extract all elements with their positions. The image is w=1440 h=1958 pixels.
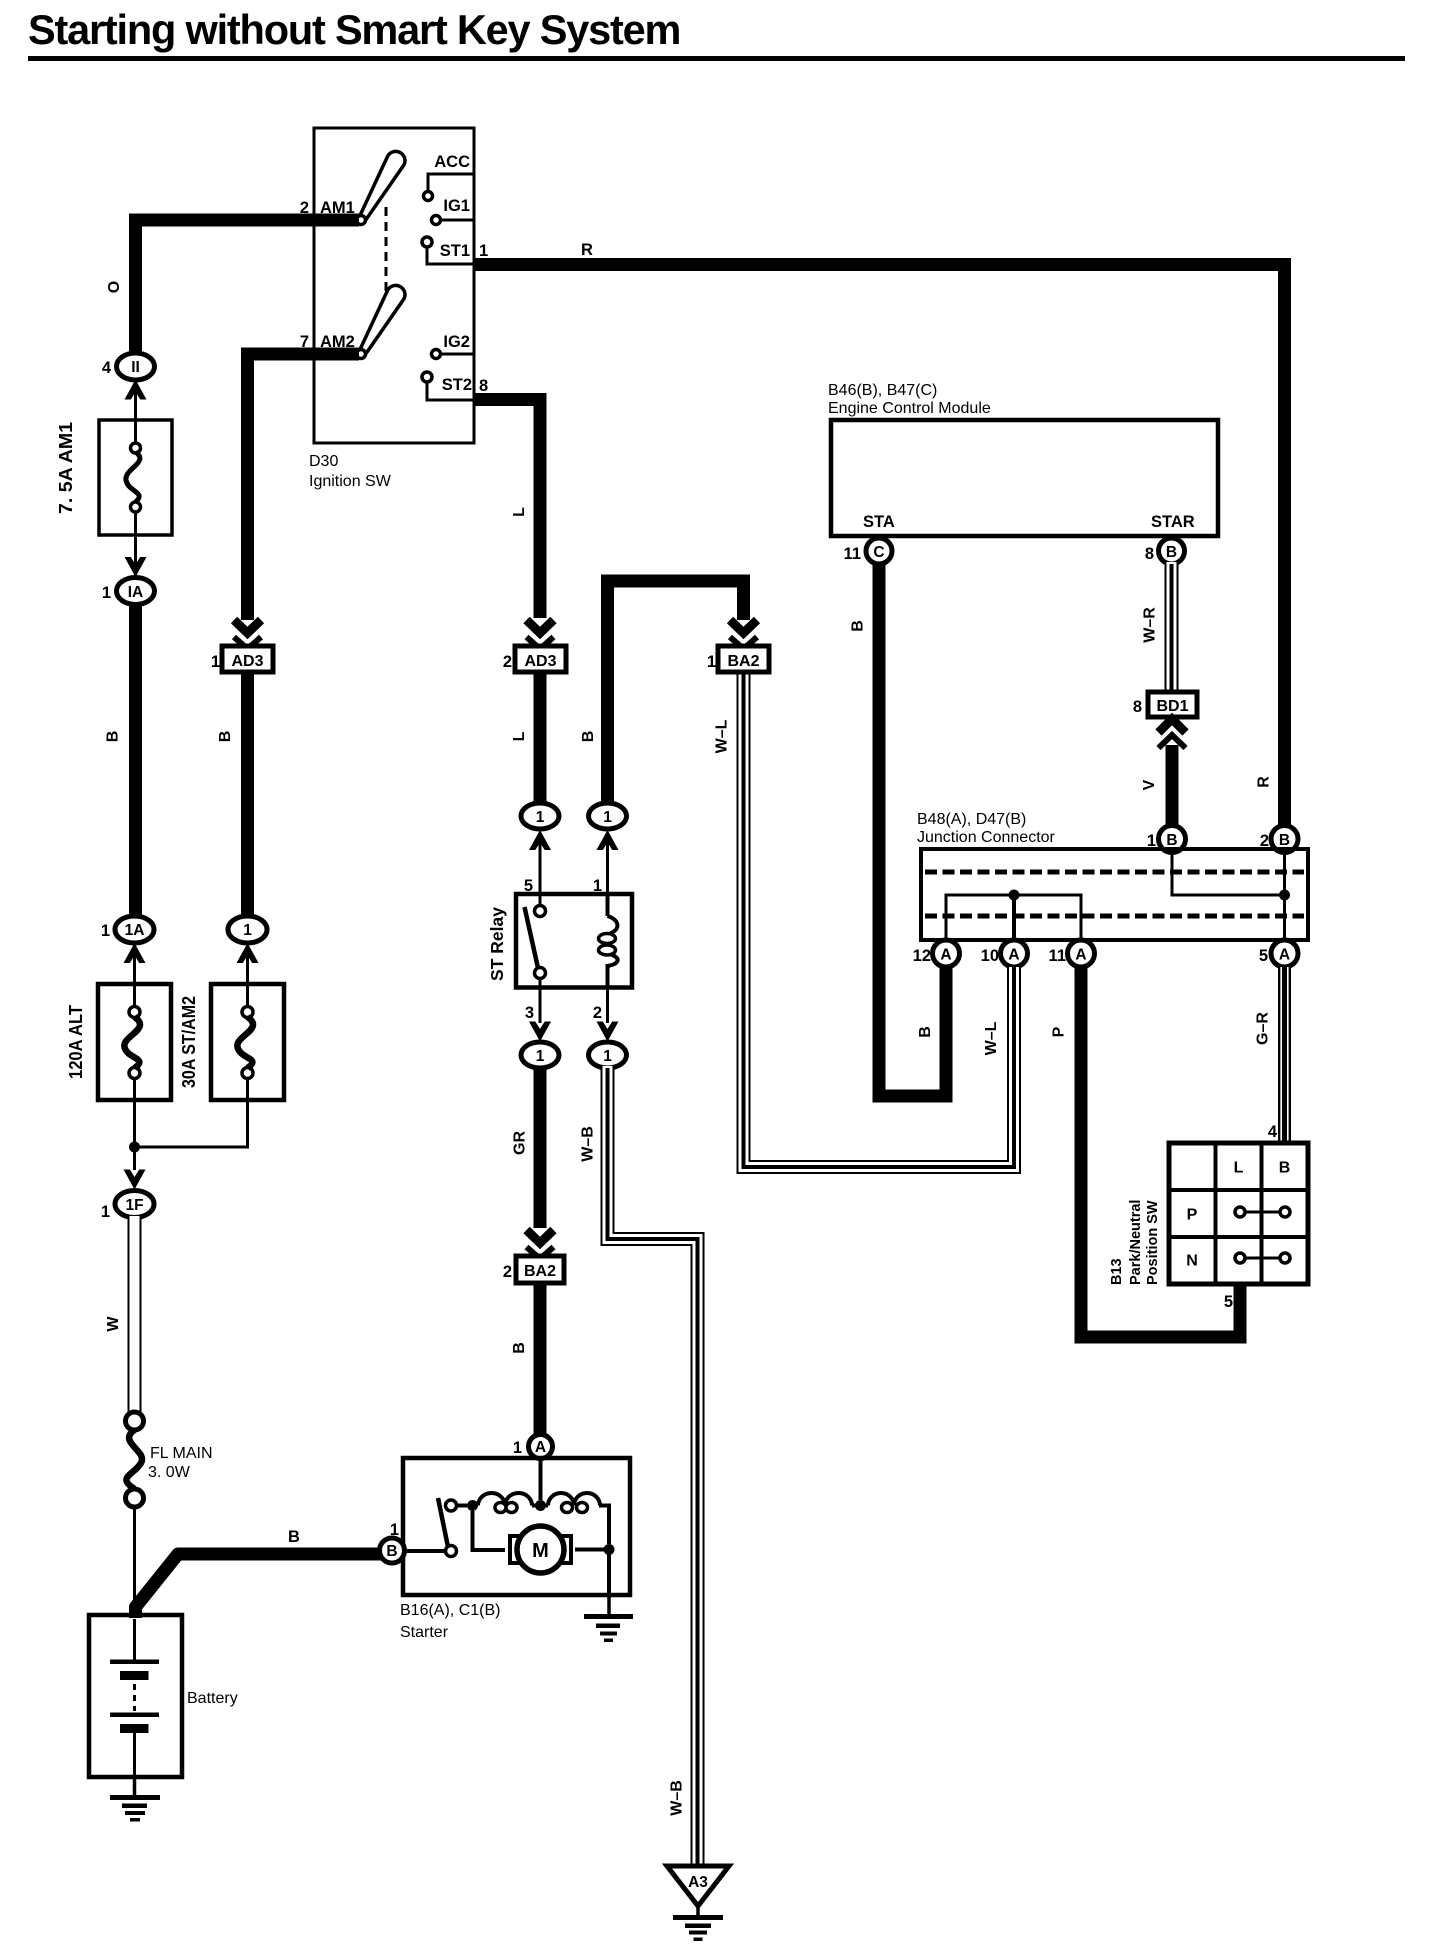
connector BA2 pin1 [718, 646, 769, 672]
double chevron up into BD1 [1159, 719, 1186, 748]
contact IG1 [432, 216, 475, 225]
label B [217, 731, 234, 743]
svg-text:W–R: W–R [1142, 607, 1159, 643]
wire AM1 contact stub [314, 219, 358, 222]
connector IA [117, 578, 155, 605]
svg-text:BA2: BA2 [524, 1263, 556, 1280]
arrow down into oval below pin2 [597, 1022, 619, 1042]
label Position SW [1145, 1200, 1161, 1285]
svg-text:Engine Control Module: Engine Control Module [828, 400, 991, 417]
wire FL MAIN to battery [133, 1507, 136, 1615]
svg-text:3: 3 [525, 1004, 534, 1022]
svg-text:STA: STA [863, 513, 895, 531]
wire G-R from junction 5A to park/neutral SW [1281, 967, 1288, 1143]
svg-text:M: M [532, 1540, 549, 1562]
svg-text:A3: A3 [688, 1874, 708, 1891]
label L [511, 507, 528, 517]
junction pin 12A [933, 940, 960, 967]
junction dot [129, 1142, 140, 1153]
svg-text:G–R: G–R [1255, 1012, 1272, 1045]
label GR [512, 1131, 529, 1155]
junction internal left bus [946, 895, 1081, 940]
junction connector box [921, 849, 1308, 940]
svg-text:W: W [105, 1316, 122, 1332]
svg-text:GR: GR [512, 1131, 529, 1155]
svg-text:11: 11 [1049, 947, 1066, 965]
svg-text:B: B [105, 731, 122, 743]
svg-text:B: B [1166, 544, 1177, 561]
svg-text:B: B [850, 620, 867, 632]
label W-L lower [983, 1021, 1000, 1055]
svg-text:A: A [1075, 947, 1086, 964]
svg-text:11: 11 [844, 545, 861, 563]
svg-text:4: 4 [102, 359, 112, 377]
wire B from AD3 to oval 1 [241, 672, 254, 916]
pin oval 1 above 30A fuse [228, 916, 267, 943]
svg-text:1: 1 [101, 1203, 110, 1221]
connector BD1 [1148, 692, 1197, 717]
relay pin 2 wire [606, 988, 609, 1024]
label V [1141, 779, 1158, 790]
label Engine Control Module [828, 400, 991, 417]
arrow up into oval 1 [237, 943, 259, 963]
svg-text:N: N [1186, 1253, 1198, 1270]
starter internal circuit [405, 1458, 546, 1557]
svg-text:8: 8 [479, 377, 488, 395]
junction pin 2B [1271, 826, 1298, 853]
pin 8 label [1145, 545, 1154, 563]
pin 1 at IA [102, 584, 111, 602]
svg-text:2: 2 [503, 653, 512, 671]
wire W-L from BA2 to junction 10A [744, 672, 1015, 1167]
svg-text:A: A [1279, 947, 1290, 964]
svg-text:L: L [511, 731, 528, 741]
label B lower [917, 1026, 934, 1038]
double chevron into AD3 pin2 [527, 620, 554, 649]
svg-text:1: 1 [536, 809, 545, 826]
svg-text:1: 1 [101, 922, 110, 940]
wire from 30A fuse to junction [135, 1078, 248, 1147]
svg-text:D30: D30 [309, 453, 338, 470]
svg-text:AD3: AD3 [231, 653, 263, 670]
svg-text:STAR: STAR [1151, 513, 1195, 531]
label B [511, 1342, 528, 1354]
contact IG2 [432, 350, 475, 359]
connector AD3 pin2 [515, 646, 566, 672]
fuse 7.5A AM1 [99, 420, 172, 535]
svg-text:W–B: W–B [580, 1126, 597, 1162]
starter ground [584, 1595, 633, 1642]
pin 2 label [593, 1004, 602, 1022]
svg-text:B46(B), B47(C): B46(B), B47(C) [828, 382, 937, 399]
junction dot left [1009, 890, 1020, 901]
svg-text:B: B [217, 731, 234, 743]
svg-text:B48(A), D47(B): B48(A), D47(B) [917, 811, 1026, 828]
wire O from AM1 to connector II [136, 220, 360, 352]
arrow up below oval [597, 830, 619, 850]
fuse 30A ST/AM2 [211, 984, 284, 1100]
wire to relay pin 5 [539, 838, 542, 905]
svg-text:1F: 1F [125, 1197, 143, 1214]
label 3. 0W [148, 1464, 191, 1481]
label B [580, 731, 597, 743]
svg-text:A: A [1008, 947, 1019, 964]
svg-text:AD3: AD3 [524, 653, 556, 670]
arrow up below oval [529, 830, 551, 850]
label R vertical [1256, 776, 1273, 788]
svg-text:A: A [535, 1439, 546, 1456]
svg-text:R: R [581, 241, 593, 259]
pin 10 label [981, 947, 999, 965]
relay pin1 oval 1 [589, 803, 627, 829]
label B48(A), D47(B) [917, 811, 1026, 828]
ECM pin C [866, 538, 892, 564]
label ST1 [440, 242, 470, 260]
pin 1 at starter A [513, 1439, 522, 1457]
label L cell [1234, 1160, 1244, 1177]
wire oval to fuse 30A [246, 950, 249, 1007]
title underline rule [28, 56, 1405, 61]
wire B battery to starter [136, 1554, 394, 1618]
junction dashed bus upper [925, 870, 1304, 875]
svg-text:A: A [940, 947, 951, 964]
svg-text:8: 8 [1133, 698, 1142, 716]
pin 8 at BD1 [1133, 698, 1142, 716]
wire AM2 contact stub [314, 353, 358, 356]
starter box [403, 1458, 630, 1595]
label P [1051, 1026, 1068, 1037]
arrow down into 1F [124, 1170, 146, 1190]
label B16(A), C1(B) [400, 1602, 500, 1619]
svg-text:1: 1 [536, 1048, 545, 1065]
starter field coils [478, 1493, 615, 1595]
pin 1 ST1 [479, 242, 488, 260]
pin 1 at 1A [101, 922, 110, 940]
label N cell [1186, 1253, 1198, 1270]
starter terminal A [529, 1435, 553, 1459]
double chevron into BA2 pin2 [527, 1230, 554, 1259]
svg-text:12: 12 [913, 947, 931, 965]
pin 12 label [913, 947, 931, 965]
svg-text:1: 1 [707, 653, 716, 671]
svg-text:4: 4 [1268, 1123, 1278, 1141]
svg-text:B: B [386, 1543, 397, 1560]
svg-text:ST Relay: ST Relay [487, 907, 507, 981]
svg-text:B: B [511, 1342, 528, 1354]
svg-text:1: 1 [603, 809, 612, 826]
svg-text:Starter: Starter [400, 1624, 449, 1641]
N row contacts [1235, 1253, 1290, 1263]
svg-text:5: 5 [1259, 947, 1268, 965]
double chevron into AD3 pin1 [234, 620, 261, 649]
svg-text:ST2: ST2 [442, 376, 472, 394]
label 30A ST/AM2 [178, 996, 199, 1088]
svg-text:1: 1 [479, 242, 488, 260]
label B [288, 1528, 300, 1546]
svg-text:2: 2 [503, 1263, 512, 1281]
relay pin 3 wire [539, 988, 542, 1024]
pin 11 label [1049, 947, 1066, 965]
wire V from junction 1B to BD1 [1166, 745, 1179, 826]
label ST Relay [487, 907, 507, 981]
label AM2 [320, 333, 355, 351]
label W-B [580, 1126, 597, 1162]
battery ground [110, 1777, 160, 1822]
label 120A ALT [65, 1004, 86, 1079]
ignition switch D30 box [314, 128, 474, 443]
label STAR [1151, 513, 1195, 531]
label B [105, 731, 122, 743]
svg-text:O: O [106, 281, 123, 293]
wire B from AM2 to AD3 [248, 354, 360, 620]
pin 1 label at 1B [1147, 832, 1156, 850]
pin 3 label [525, 1004, 534, 1022]
svg-text:W–L: W–L [983, 1021, 1000, 1055]
relay pin5 oval 1 [521, 803, 559, 829]
svg-text:1: 1 [513, 1439, 522, 1457]
label P cell [1187, 1207, 1198, 1224]
wire fuse to IA [134, 512, 137, 577]
wire L from AD3 to relay oval [534, 672, 547, 805]
ground symbol A3 [673, 1906, 723, 1941]
contact ST1 [422, 237, 474, 264]
svg-text:ACC: ACC [434, 153, 470, 171]
svg-text:BD1: BD1 [1156, 698, 1188, 715]
wire R from ST1 to junction connector 2B [474, 265, 1285, 826]
svg-text:Junction Connector: Junction Connector [917, 829, 1056, 846]
relay switch [525, 894, 546, 988]
contact ACC [424, 174, 475, 201]
label O [106, 281, 123, 293]
connector 1F [115, 1191, 154, 1218]
svg-text:B: B [580, 731, 597, 743]
svg-text:B: B [917, 1026, 934, 1038]
svg-text:Starting without Smart Key Sys: Starting without Smart Key System [28, 6, 680, 53]
pin 1 at 1F [101, 1203, 110, 1221]
pin 5 label at switch [1224, 1293, 1233, 1311]
wire to relay pin 1 [606, 838, 609, 905]
double chevron into BA2 pin1 [730, 620, 757, 649]
svg-text:P: P [1051, 1026, 1068, 1037]
battery box [89, 1615, 182, 1777]
svg-text:10: 10 [981, 947, 999, 965]
P row contacts [1235, 1207, 1290, 1217]
junction dashed bus lower [925, 914, 1304, 919]
connector AD3 pin1 [222, 646, 273, 672]
title: Starting without Smart Key System [28, 6, 680, 53]
svg-text:1: 1 [603, 1048, 612, 1065]
svg-text:3. 0W: 3. 0W [148, 1464, 191, 1481]
arrow up into 1A [124, 943, 146, 963]
wire P from junction 11A to park/neutral SW [1081, 967, 1240, 1337]
wire from 120A fuse down [133, 1078, 136, 1170]
svg-text:30A ST/AM2: 30A ST/AM2 [178, 996, 199, 1088]
label Park/Neutral [1128, 1200, 1144, 1285]
junction dot right [1279, 890, 1290, 901]
svg-text:W–B: W–B [669, 1780, 686, 1816]
svg-text:B13: B13 [1109, 1258, 1125, 1285]
label W [105, 1316, 122, 1332]
svg-text:120A ALT: 120A ALT [65, 1004, 86, 1079]
contact ST2 [422, 372, 474, 400]
relay pin2 oval 1 [589, 1042, 627, 1068]
svg-text:Position SW: Position SW [1145, 1200, 1161, 1285]
pin 4 label [1268, 1123, 1278, 1141]
svg-text:W–L: W–L [714, 719, 731, 753]
wire W-B from relay pin2 to ground A3 [608, 1066, 698, 1864]
svg-text:B: B [1166, 832, 1177, 849]
svg-text:1: 1 [243, 922, 252, 939]
pin 1 label [593, 877, 602, 895]
wire W hollow from 1F to FL MAIN [128, 1216, 142, 1414]
fusible link FL MAIN [126, 1412, 144, 1507]
wire GR from relay to BA2 [534, 1068, 547, 1228]
label B46(B), B47(C) [828, 382, 937, 399]
pin 1 at BA2 [707, 653, 716, 671]
arrow down into oval below pin3 [529, 1022, 551, 1042]
svg-text:B16(A), C1(B): B16(A), C1(B) [400, 1602, 500, 1619]
svg-text:BA2: BA2 [727, 653, 759, 670]
label L [511, 731, 528, 741]
pin 5 label [1259, 947, 1268, 965]
svg-text:B: B [1279, 832, 1290, 849]
wire B from IA to 1A [129, 604, 142, 916]
fuse 120A ALT [98, 984, 171, 1100]
svg-text:IG1: IG1 [443, 197, 470, 215]
label Ignition SW [309, 473, 392, 490]
pin 2 label at 2B [1260, 832, 1269, 850]
starter terminal B [380, 1538, 405, 1563]
wire B from relay pin1 oval up to BA2 [608, 581, 744, 803]
label Starter [400, 1624, 449, 1641]
battery cells [110, 1619, 159, 1777]
ST relay box [516, 894, 632, 988]
svg-text:R: R [1256, 776, 1273, 788]
label W-L upper [714, 719, 731, 753]
connector II [117, 353, 155, 380]
junction pin 11A [1068, 940, 1095, 967]
svg-text:1A: 1A [125, 922, 145, 939]
connector BA2 pin2 [516, 1256, 564, 1283]
relay pin3 oval 1 [521, 1042, 559, 1068]
svg-text:FL MAIN: FL MAIN [150, 1445, 213, 1462]
pin 11 label [844, 545, 861, 563]
label G-R [1255, 1012, 1272, 1045]
pin 1 at starter B [390, 1521, 399, 1539]
svg-text:B: B [1279, 1160, 1291, 1177]
pin 7 AM2 [300, 333, 309, 351]
key lever 1 (AM1) [357, 151, 405, 224]
wire into fuse 7.5A AM1 [134, 388, 137, 444]
label R [581, 241, 593, 259]
arrow down into IA [125, 557, 147, 577]
label IG2 [443, 333, 470, 351]
svg-text:1: 1 [211, 653, 220, 671]
label D30 [309, 453, 338, 470]
junction internal 10A line [1012, 895, 1016, 940]
label STA [863, 513, 895, 531]
connector 1A [115, 916, 154, 943]
svg-text:2: 2 [593, 1004, 602, 1022]
svg-text:8: 8 [1145, 545, 1154, 563]
svg-text:P: P [1187, 1207, 1198, 1224]
label ACC [434, 153, 470, 171]
svg-text:IA: IA [128, 584, 144, 601]
pin 4 at connector II [102, 359, 112, 377]
arrow up into II [125, 380, 147, 400]
wire B from STA to junction 12A [879, 564, 946, 1096]
svg-text:C: C [873, 544, 884, 561]
svg-text:II: II [131, 359, 140, 376]
pin 2 at BA2 [503, 1263, 512, 1281]
svg-text:1: 1 [102, 584, 111, 602]
relay coil [599, 894, 618, 988]
junction internal 1B to 2B link [1172, 852, 1285, 895]
pin 8 ST2 [479, 377, 488, 395]
pin 2 AM1 [300, 199, 309, 217]
svg-text:Ignition SW: Ignition SW [309, 473, 392, 490]
label IG1 [443, 197, 470, 215]
junction pin 5A [1271, 940, 1298, 967]
wire B from BA2 to starter A [534, 1283, 547, 1434]
pin 2 at AD3 [503, 653, 512, 671]
svg-text:Park/Neutral: Park/Neutral [1128, 1200, 1144, 1285]
label W-R [1142, 607, 1159, 643]
starter motor M [510, 1526, 604, 1573]
junction internal 2B to 5A line [1283, 852, 1286, 940]
svg-text:Battery: Battery [187, 1690, 238, 1707]
key link dashed line [385, 207, 388, 291]
svg-text:5: 5 [1224, 1293, 1233, 1311]
junction pin 1B [1159, 826, 1186, 853]
label B cell [1279, 1160, 1291, 1177]
label ST2 [442, 376, 472, 394]
ECM pin B [1159, 538, 1185, 564]
label AM1 [320, 199, 355, 217]
svg-text:ST1: ST1 [440, 242, 470, 260]
svg-text:7. 5A AM1: 7. 5A AM1 [55, 422, 76, 514]
svg-text:B: B [288, 1528, 300, 1546]
ground connector A3 [667, 1866, 729, 1906]
park/neutral position switch box [1169, 1143, 1308, 1284]
label Junction Connector [917, 829, 1056, 846]
wire L from ST2 to AD3 [474, 400, 540, 619]
pin 1 at AD3 [211, 653, 220, 671]
wire 1A to fuse 120A ALT [133, 950, 136, 1007]
engine control module box [831, 420, 1218, 536]
label Battery [187, 1690, 238, 1707]
label FL MAIN [150, 1445, 213, 1462]
label W-B lower [669, 1780, 686, 1816]
key lever 2 (AM2) [357, 285, 405, 358]
svg-text:L: L [511, 507, 528, 517]
junction pin 10A [1001, 940, 1028, 967]
pin 5 label [524, 877, 533, 895]
svg-text:IG2: IG2 [443, 333, 470, 351]
svg-text:L: L [1234, 1160, 1244, 1177]
label 7.5A AM1 [55, 422, 76, 514]
svg-text:V: V [1141, 779, 1158, 790]
wire W-R from STAR to BD1 [1165, 562, 1179, 691]
label B13 [1109, 1258, 1125, 1285]
label B upper [850, 620, 867, 632]
